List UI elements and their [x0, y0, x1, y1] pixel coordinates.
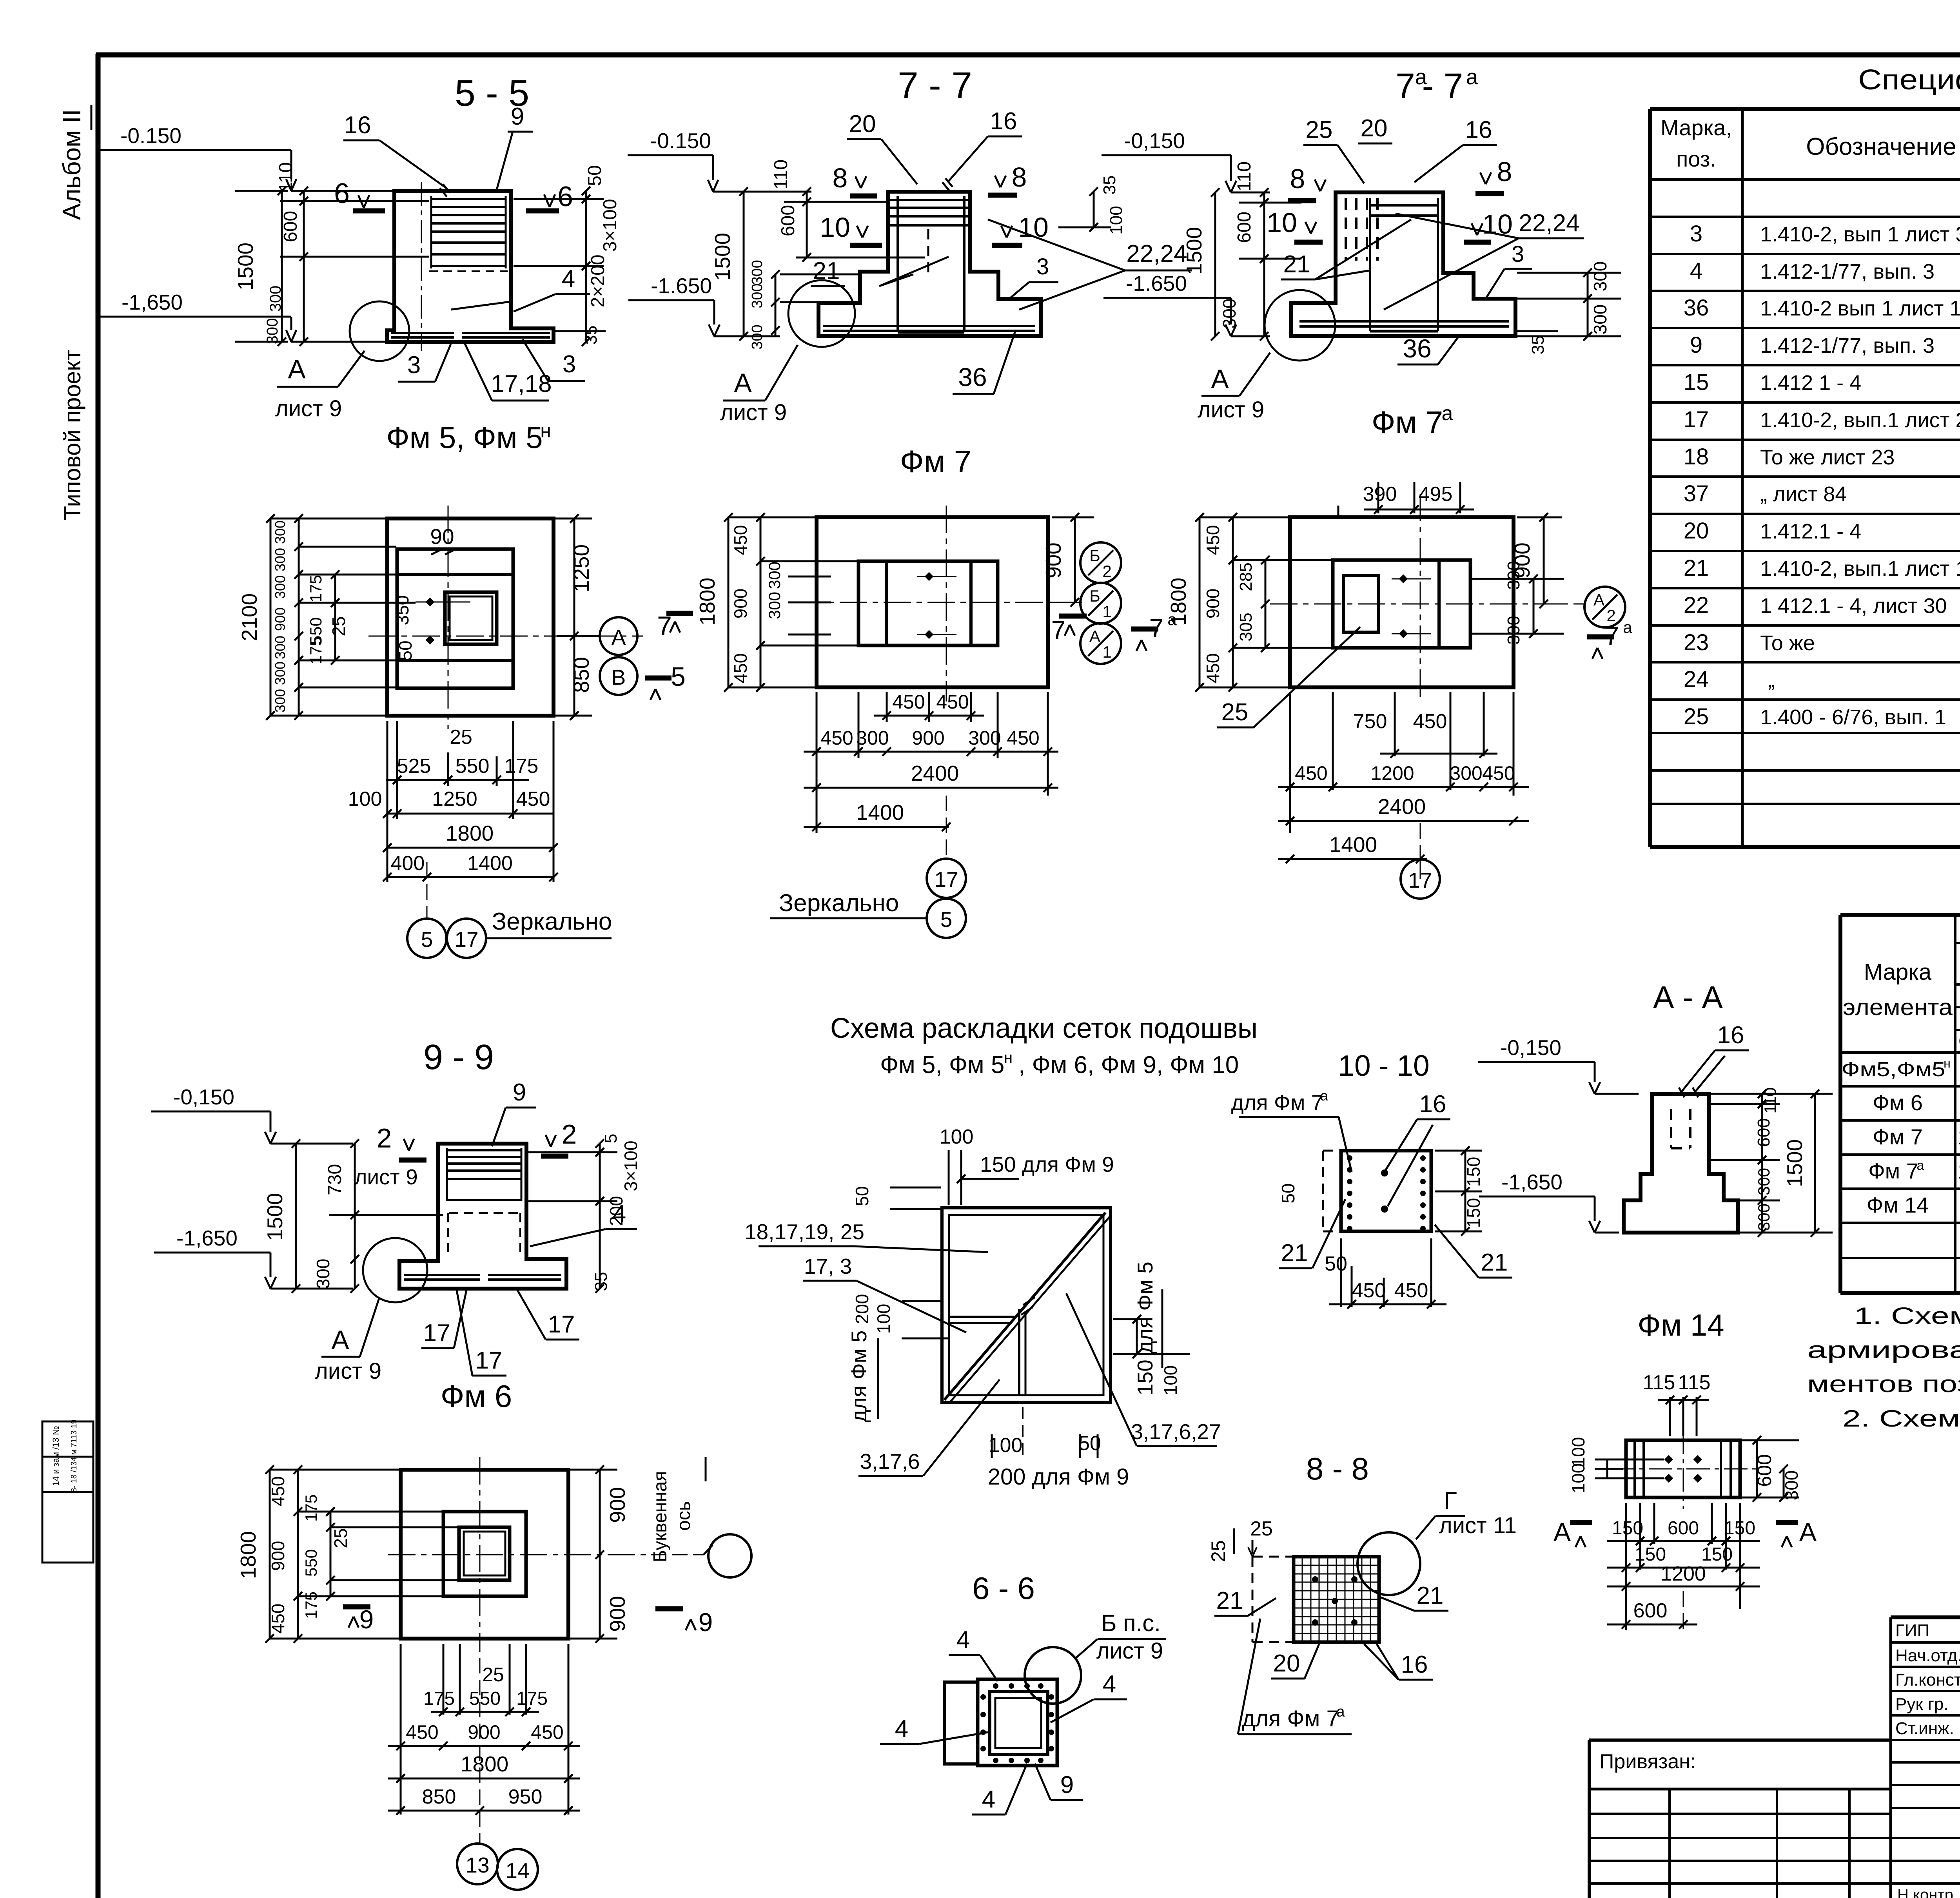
svg-text:21: 21: [1283, 251, 1310, 278]
svg-text:-1.650: -1.650: [1126, 271, 1187, 295]
svg-text:4: 4: [895, 1715, 908, 1742]
svg-text:17, 3: 17, 3: [804, 1254, 852, 1278]
svg-text:„ лист 84: „ лист 84: [1760, 482, 1847, 506]
svg-text:850: 850: [569, 657, 593, 693]
svg-text:для Фм 7: для Фм 7: [1231, 1090, 1323, 1115]
svg-text:150: 150: [1724, 1518, 1755, 1539]
svg-text:А: А: [1553, 1517, 1571, 1546]
svg-text:4: 4: [1103, 1671, 1116, 1698]
svg-text:12,9: 12,9: [1958, 1158, 1960, 1183]
svg-text:175: 175: [505, 755, 539, 778]
svg-text:100: 100: [940, 1126, 974, 1148]
svg-text:175: 175: [302, 1494, 320, 1522]
svg-text:1800: 1800: [1166, 578, 1191, 625]
svg-text:50: 50: [1278, 1183, 1298, 1203]
svg-text:3: 3: [563, 351, 576, 378]
svg-text:36: 36: [958, 363, 987, 392]
svg-text:850: 850: [422, 1786, 456, 1808]
svg-text:1.410-2, вып 1 лист 3: 1.410-2, вып 1 лист 3: [1760, 223, 1960, 246]
svg-text:10: 10: [1018, 212, 1049, 243]
svg-text:600: 600: [280, 211, 301, 242]
svg-text:1400: 1400: [856, 800, 904, 825]
svg-text:110: 110: [276, 162, 296, 192]
svg-text:-0,150: -0,150: [1500, 1035, 1561, 1060]
svg-text:25: 25: [328, 616, 349, 636]
svg-text:Фм 6: Фм 6: [1873, 1090, 1923, 1115]
svg-text:-1,650: -1,650: [1501, 1170, 1563, 1194]
svg-text:2400: 2400: [1378, 794, 1426, 819]
svg-text:Н.контр: Н.контр: [1897, 1886, 1953, 1898]
svg-text:-0.150: -0.150: [650, 129, 711, 153]
svg-text:450: 450: [730, 525, 751, 555]
svg-text:21: 21: [1684, 555, 1709, 581]
svg-text:750: 750: [1353, 710, 1387, 733]
svg-text:90: 90: [430, 524, 454, 549]
svg-text:2400: 2400: [911, 761, 959, 785]
svg-text:16: 16: [1465, 116, 1492, 143]
svg-text:36: 36: [1403, 334, 1431, 363]
svg-text:450: 450: [268, 1604, 288, 1634]
svg-text:2: 2: [562, 1119, 577, 1149]
svg-text:2. Схему раскладки сеток п: 2. Схему раскладки сеток подошвы Фм 7, Ф…: [1842, 1405, 1960, 1432]
svg-text:1.410-2 вып 1 лист 142: 1.410-2 вып 1 лист 142: [1760, 297, 1960, 320]
svg-text:1800: 1800: [236, 1531, 260, 1579]
svg-text:Зеркально: Зеркально: [779, 890, 899, 917]
svg-text:50: 50: [584, 165, 605, 186]
svg-text:100: 100: [873, 1304, 894, 1334]
svg-text:8: 8: [1012, 162, 1027, 192]
svg-text:1.410-2, вып.1 лист 1: 1.410-2, вып.1 лист 1: [1760, 557, 1960, 580]
svg-text:300: 300: [1590, 305, 1610, 335]
svg-text:300: 300: [264, 318, 281, 344]
svg-text:300: 300: [1504, 616, 1523, 644]
svg-text:35: 35: [592, 1272, 611, 1291]
svg-text:4: 4: [956, 1626, 970, 1653]
svg-text:16: 16: [1717, 1022, 1744, 1049]
svg-text:450: 450: [1295, 762, 1327, 784]
svg-text:3,17,6: 3,17,6: [860, 1449, 920, 1474]
svg-text:900: 900: [1203, 589, 1223, 619]
svg-text:16: 16: [990, 108, 1017, 135]
svg-text:Фм 7: Фм 7: [1372, 405, 1443, 440]
svg-text:а: а: [1320, 1088, 1328, 1104]
svg-text:14: 14: [505, 1858, 529, 1883]
svg-text:450: 450: [730, 653, 751, 683]
svg-text:300: 300: [749, 283, 766, 308]
svg-text:50: 50: [395, 640, 416, 660]
svg-text:25: 25: [482, 1664, 504, 1686]
svg-text:22: 22: [1684, 593, 1709, 618]
svg-text:Зеркально: Зеркально: [492, 908, 612, 935]
svg-text:-0,150: -0,150: [1124, 129, 1185, 153]
svg-text:300: 300: [1219, 299, 1240, 329]
svg-text:300: 300: [313, 1259, 333, 1289]
svg-text:1. Схему сборки пространс: 1. Схему сборки пространственного каркас…: [1854, 1303, 1960, 1329]
svg-text:21: 21: [813, 257, 840, 285]
svg-text:9: 9: [511, 103, 524, 130]
svg-text:17: 17: [934, 867, 958, 892]
svg-text:150: 150: [1612, 1518, 1643, 1539]
svg-text:4: 4: [613, 1200, 626, 1227]
svg-text:18,17,19, 25: 18,17,19, 25: [744, 1220, 864, 1244]
svg-text:12,9: 12,9: [1958, 1124, 1960, 1149]
svg-text:20: 20: [1684, 518, 1709, 544]
svg-text:7: 7: [1396, 67, 1415, 106]
svg-text:36: 36: [1684, 295, 1709, 321]
svg-text:2×200: 2×200: [588, 255, 608, 308]
svg-text:Буквенная: Буквенная: [650, 1471, 671, 1563]
svg-text:450: 450: [1413, 710, 1447, 733]
svg-text:495: 495: [1419, 483, 1453, 506]
svg-text:110: 110: [1761, 1088, 1779, 1114]
svg-text:900: 900: [272, 607, 288, 631]
svg-text:1400: 1400: [1329, 832, 1377, 857]
svg-text:17: 17: [1684, 407, 1709, 432]
svg-text:300: 300: [749, 260, 766, 285]
svg-text:а: а: [1466, 65, 1478, 89]
svg-text:1800: 1800: [461, 1752, 508, 1776]
svg-text:300: 300: [272, 689, 288, 712]
svg-text:450: 450: [406, 1721, 438, 1743]
svg-text:450: 450: [531, 1721, 563, 1743]
svg-text:300: 300: [267, 286, 284, 312]
svg-text:900: 900: [605, 1487, 630, 1523]
svg-text:21: 21: [1281, 1240, 1308, 1267]
svg-text:35: 35: [1100, 176, 1119, 195]
svg-text:для Фм 7: для Фм 7: [1242, 1706, 1339, 1731]
svg-text:600: 600: [1633, 1599, 1668, 1622]
svg-text:25: 25: [1306, 116, 1333, 143]
svg-text:„: „: [1768, 668, 1775, 692]
svg-text:300: 300: [272, 636, 288, 659]
svg-text:17: 17: [423, 1320, 450, 1347]
svg-text:400: 400: [391, 852, 425, 875]
svg-text:3×100: 3×100: [600, 199, 621, 252]
svg-text:6 - 6: 6 - 6: [972, 1571, 1035, 1606]
svg-text:115: 115: [1643, 1371, 1675, 1394]
svg-text:лист 9: лист 9: [315, 1358, 381, 1384]
svg-text:550: 550: [469, 1688, 501, 1709]
svg-text:для Фм 5: для Фм 5: [847, 1331, 871, 1423]
svg-text:8 - 8: 8 - 8: [1306, 1451, 1369, 1486]
svg-text:Фм 7: Фм 7: [900, 444, 972, 479]
svg-text:300: 300: [272, 662, 288, 685]
svg-text:1.410-2, вып.1 лист 2: 1.410-2, вып.1 лист 2: [1760, 408, 1960, 432]
svg-text:5: 5: [601, 1134, 621, 1143]
svg-text:17: 17: [454, 927, 478, 952]
svg-text:А: А: [734, 368, 752, 398]
svg-text:-1,650: -1,650: [176, 1226, 238, 1250]
svg-text:390: 390: [1363, 483, 1397, 506]
svg-text:525: 525: [397, 755, 431, 778]
svg-text:25: 25: [330, 1528, 351, 1548]
svg-text:н: н: [1004, 1049, 1013, 1066]
svg-text:Привязан:: Привязан:: [1599, 1750, 1696, 1773]
svg-text:25: 25: [1207, 1540, 1229, 1562]
svg-text:350: 350: [392, 595, 412, 625]
svg-text:1: 1: [1102, 643, 1111, 661]
svg-text:2: 2: [377, 1123, 392, 1153]
svg-text:10 - 10: 10 - 10: [1338, 1049, 1430, 1082]
svg-text:550: 550: [456, 755, 490, 778]
svg-text:А: А: [331, 1325, 349, 1355]
svg-text:600: 600: [1753, 1454, 1775, 1486]
svg-text:элемента: элемента: [1843, 995, 1953, 1020]
svg-text:5: 5: [940, 907, 953, 932]
svg-text:2: 2: [1102, 562, 1111, 580]
svg-text:-1,650: -1,650: [122, 290, 183, 314]
svg-text:Фм 5, Фм 5: Фм 5, Фм 5: [880, 1051, 1004, 1079]
svg-text:А: А: [1593, 591, 1604, 609]
svg-text:3: 3: [1512, 241, 1524, 267]
svg-text:8: 8: [1290, 163, 1305, 194]
svg-text:3: 3: [1036, 254, 1049, 279]
svg-text:Альбом II: Альбом II: [58, 109, 86, 220]
svg-text:35: 35: [581, 326, 601, 345]
svg-text:9: 9: [1060, 1771, 1074, 1798]
svg-text:22,24: 22,24: [1519, 210, 1579, 237]
svg-text:1.412 1 - 4: 1.412 1 - 4: [1760, 371, 1861, 395]
svg-text:450: 450: [1394, 1279, 1428, 1302]
svg-text:Ст.инж.: Ст.инж.: [1895, 1719, 1954, 1738]
svg-text:450: 450: [820, 727, 853, 749]
svg-text:450: 450: [1007, 727, 1039, 749]
svg-text:450: 450: [1203, 525, 1223, 555]
svg-text:450: 450: [1482, 762, 1515, 784]
svg-text:13: 13: [465, 1853, 489, 1877]
svg-text:1: 1: [1102, 602, 1111, 621]
svg-text:300: 300: [272, 575, 288, 599]
svg-text:150: 150: [1701, 1544, 1733, 1565]
svg-text:18: 18: [1684, 444, 1709, 470]
svg-text:900: 900: [468, 1721, 500, 1743]
svg-text:300: 300: [749, 324, 766, 349]
svg-text:300: 300: [765, 562, 784, 589]
svg-text:200 для Фм 9: 200 для Фм 9: [988, 1464, 1129, 1490]
svg-text:Типовой проект: Типовой проект: [59, 350, 85, 520]
svg-text:1.412-1/77, вып. 3: 1.412-1/77, вып. 3: [1760, 260, 1935, 283]
svg-text:550: 550: [302, 1549, 320, 1577]
svg-text:3,17,6,27: 3,17,6,27: [1131, 1419, 1221, 1444]
svg-text:100: 100: [1160, 1365, 1181, 1396]
svg-text:3: 3: [1690, 221, 1702, 247]
svg-text:4: 4: [562, 265, 575, 292]
svg-text:н: н: [540, 420, 551, 442]
svg-text:То же: То же: [1760, 631, 1815, 655]
svg-text:25: 25: [1221, 699, 1249, 726]
svg-text:Гл.констр: Гл.констр: [1895, 1670, 1960, 1690]
svg-text:450: 450: [892, 691, 925, 713]
svg-text:300: 300: [1755, 1204, 1773, 1231]
svg-text:3×100: 3×100: [621, 1140, 641, 1191]
svg-text:лист 9: лист 9: [1198, 397, 1264, 422]
svg-text:В: В: [612, 665, 626, 689]
svg-text:200: 200: [852, 1294, 872, 1324]
svg-text:Схема раскладки сеток подошвы: Схема раскладки сеток подошвы: [830, 1013, 1258, 1044]
svg-text:н: н: [1944, 1056, 1951, 1070]
svg-text:15: 15: [1684, 370, 1709, 395]
svg-text:Г: Г: [1444, 1487, 1457, 1514]
svg-text:9: 9: [1690, 332, 1702, 358]
svg-text:100: 100: [1568, 1463, 1588, 1494]
svg-text:35: 35: [1528, 335, 1548, 355]
svg-text:лист 9: лист 9: [720, 400, 787, 425]
svg-text:450: 450: [268, 1476, 288, 1506]
svg-text:лист 9: лист 9: [275, 396, 342, 421]
svg-text:175: 175: [307, 575, 325, 602]
svg-text:Марка,: Марка,: [1661, 115, 1732, 140]
svg-text:300: 300: [1755, 1168, 1773, 1195]
svg-text:1250: 1250: [432, 788, 477, 810]
svg-text:21: 21: [1417, 1582, 1444, 1609]
svg-text:900: 900: [268, 1541, 288, 1571]
svg-text:150: 150: [1635, 1544, 1666, 1565]
svg-text:Фм 6: Фм 6: [441, 1379, 512, 1414]
svg-text:115: 115: [1678, 1371, 1711, 1394]
svg-text:20: 20: [1361, 115, 1388, 142]
svg-text:А: А: [288, 354, 306, 384]
svg-text:А: А: [612, 625, 626, 649]
svg-text:1200: 1200: [1370, 762, 1414, 784]
svg-text:а: а: [1917, 1158, 1924, 1173]
svg-text:10: 10: [820, 212, 850, 243]
svg-text:16: 16: [1401, 1651, 1428, 1678]
svg-text:24: 24: [1684, 667, 1709, 692]
svg-text:лист 9: лист 9: [1096, 1638, 1163, 1664]
svg-text:305: 305: [1236, 613, 1256, 641]
svg-text:300: 300: [1590, 261, 1610, 292]
svg-text:1 412.1 - 4, лист 30: 1 412.1 - 4, лист 30: [1760, 594, 1947, 618]
svg-text:450: 450: [1352, 1279, 1386, 1302]
svg-text:17: 17: [548, 1311, 575, 1338]
svg-text:7: 7: [1051, 615, 1066, 644]
svg-text:9: 9: [699, 1608, 713, 1637]
svg-text:а: а: [1623, 618, 1632, 636]
svg-text:25: 25: [450, 726, 472, 749]
svg-text:Фм 7: Фм 7: [1873, 1124, 1923, 1149]
svg-text:900: 900: [605, 1596, 630, 1632]
svg-text:1500: 1500: [1182, 227, 1206, 275]
svg-text:9: 9: [513, 1079, 526, 1106]
svg-text:175: 175: [516, 1688, 548, 1709]
svg-text:1400: 1400: [467, 852, 513, 875]
svg-text:1500: 1500: [233, 243, 258, 290]
svg-text:А: А: [1089, 627, 1100, 645]
svg-text:300: 300: [1781, 1470, 1802, 1501]
svg-text:ось: ось: [673, 1501, 694, 1531]
svg-text:21: 21: [1481, 1249, 1508, 1276]
svg-text:А: А: [1799, 1517, 1817, 1546]
svg-text:22,24: 22,24: [1126, 240, 1187, 267]
svg-text:6: 6: [557, 181, 573, 212]
svg-text:600: 600: [1668, 1518, 1699, 1539]
svg-text:Фм 14: Фм 14: [1637, 1308, 1724, 1342]
svg-text:1.412.1 - 4: 1.412.1 - 4: [1760, 520, 1861, 543]
svg-text:поз.: поз.: [1676, 147, 1716, 171]
svg-text:Б: Б: [1089, 546, 1100, 565]
svg-text:А: А: [1211, 364, 1229, 394]
svg-text:Б: Б: [1089, 587, 1100, 605]
svg-text:600: 600: [778, 205, 799, 236]
svg-text:а: а: [1442, 402, 1453, 425]
svg-text:1250: 1250: [569, 544, 593, 592]
svg-text:20: 20: [849, 111, 876, 138]
svg-text:1800: 1800: [695, 578, 719, 625]
svg-text:175: 175: [423, 1688, 455, 1709]
svg-text:9 - 9: 9 - 9: [423, 1038, 494, 1077]
svg-text:1800: 1800: [446, 821, 494, 845]
svg-text:450: 450: [516, 788, 550, 810]
svg-text:Фм5,Фм5: Фм5,Фм5: [1842, 1058, 1945, 1081]
svg-text:2100: 2100: [237, 593, 261, 641]
svg-text:25: 25: [1684, 704, 1709, 729]
svg-text:Фм 7: Фм 7: [1868, 1158, 1918, 1183]
svg-text:лист 9: лист 9: [354, 1165, 417, 1189]
svg-text:Обозначение: Обозначение: [1806, 133, 1956, 160]
svg-text:- 7: - 7: [1422, 67, 1463, 106]
svg-text:4: 4: [982, 1786, 995, 1813]
svg-text:285: 285: [1236, 562, 1256, 591]
svg-text:110: 110: [1234, 161, 1255, 192]
svg-text:6: 6: [334, 178, 350, 209]
svg-text:300: 300: [272, 548, 288, 571]
svg-text:450: 450: [1203, 653, 1223, 683]
svg-text:Фм 14: Фм 14: [1867, 1193, 1929, 1217]
svg-text:100: 100: [348, 788, 382, 810]
svg-text:50: 50: [1325, 1253, 1347, 1275]
svg-text:1500: 1500: [710, 233, 735, 281]
svg-text:25: 25: [1250, 1517, 1273, 1540]
svg-text:10: 10: [1267, 207, 1297, 238]
svg-text:1.412-1/77, вып. 3: 1.412-1/77, вып. 3: [1760, 334, 1935, 357]
svg-text:600: 600: [1234, 212, 1255, 243]
svg-text:А - А: А - А: [1653, 980, 1723, 1015]
svg-text:-1.650: -1.650: [651, 274, 712, 298]
svg-text:300: 300: [272, 520, 288, 544]
svg-text:730: 730: [325, 1164, 345, 1195]
svg-text:ментов поз. 22, 23, 24 см.: ментов поз. 22, 23, 24 см. 1.412.1 - 4 л…: [1807, 1371, 1960, 1397]
svg-text:5: 5: [671, 662, 686, 692]
svg-text:16: 16: [1419, 1091, 1446, 1118]
svg-text:17: 17: [475, 1347, 503, 1374]
svg-text:23: 23: [1684, 630, 1709, 655]
svg-text:20: 20: [1273, 1650, 1300, 1677]
svg-text:150: 150: [1463, 1157, 1484, 1187]
svg-text:Рук гр.: Рук гр.: [1895, 1695, 1949, 1714]
svg-text:То же лист 23: То же лист 23: [1760, 446, 1895, 469]
svg-text:7 - 7: 7 - 7: [898, 65, 972, 106]
svg-text:900: 900: [912, 727, 944, 749]
svg-text:Б п.с.: Б п.с.: [1101, 1610, 1161, 1636]
svg-text:21: 21: [1216, 1587, 1243, 1614]
svg-text:300: 300: [968, 727, 1001, 749]
svg-text:900: 900: [1041, 542, 1065, 578]
svg-text:ГИП: ГИП: [1895, 1621, 1929, 1640]
svg-text:8: 8: [833, 163, 848, 193]
svg-text:450: 450: [936, 691, 969, 713]
svg-text:Фм 5, Фм 5: Фм 5, Фм 5: [386, 420, 543, 455]
svg-text:950: 950: [508, 1786, 543, 1808]
svg-text:Нач.отд.: Нач.отд.: [1895, 1646, 1960, 1665]
svg-text:300: 300: [765, 592, 784, 619]
svg-text:150 для Фм 9: 150 для Фм 9: [980, 1152, 1114, 1177]
svg-text:армирования подколонника Ф: армирования подколонника Фм 7 Фм 7: [1807, 1337, 1960, 1363]
svg-text:300: 300: [1450, 762, 1482, 784]
svg-text:300: 300: [1504, 561, 1523, 589]
svg-text:-0.150: -0.150: [120, 123, 181, 148]
svg-text:110: 110: [771, 160, 791, 190]
svg-text:17,18: 17,18: [491, 370, 552, 397]
